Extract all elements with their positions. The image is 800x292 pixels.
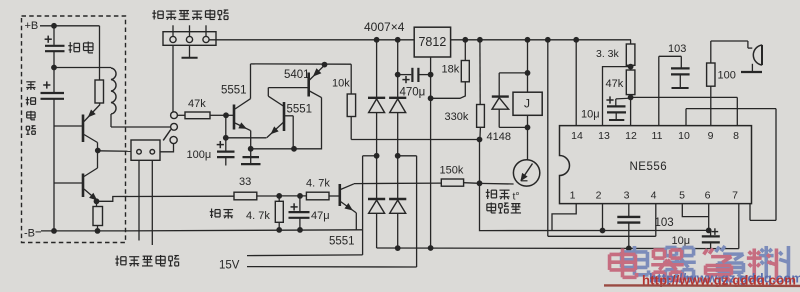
- svg-text:14: 14: [571, 130, 583, 142]
- svg-text:-B: -B: [24, 228, 35, 240]
- svg-text:10μ: 10μ: [672, 235, 691, 247]
- svg-text:5551: 5551: [329, 236, 355, 248]
- svg-text:5551: 5551: [221, 85, 247, 97]
- svg-text:10k: 10k: [332, 78, 350, 90]
- svg-text:4148: 4148: [487, 131, 511, 143]
- svg-text:470μ: 470μ: [400, 86, 426, 98]
- svg-text:t°: t°: [513, 191, 520, 203]
- svg-text:4. 7k: 4. 7k: [306, 177, 330, 189]
- svg-text:NE556: NE556: [630, 161, 668, 173]
- svg-text:47k: 47k: [606, 78, 624, 90]
- svg-text:103: 103: [668, 43, 686, 55]
- svg-text:8: 8: [733, 130, 739, 142]
- svg-text:33: 33: [239, 176, 251, 188]
- svg-text:100μ: 100μ: [187, 149, 212, 161]
- svg-text:330k: 330k: [445, 111, 469, 123]
- svg-text:5401: 5401: [284, 69, 310, 81]
- svg-text:3: 3: [624, 190, 630, 202]
- svg-text:3. 3k: 3. 3k: [596, 48, 620, 60]
- svg-text:9: 9: [708, 130, 714, 142]
- svg-text:4007×4: 4007×4: [364, 20, 405, 34]
- svg-text:5: 5: [679, 190, 685, 202]
- svg-text:5551: 5551: [287, 104, 313, 116]
- svg-text:11: 11: [652, 130, 663, 142]
- svg-text:47k: 47k: [188, 98, 206, 110]
- svg-text:103: 103: [655, 217, 674, 229]
- svg-text:12: 12: [625, 130, 637, 142]
- svg-text:6: 6: [705, 190, 711, 202]
- svg-text:150k: 150k: [440, 165, 464, 177]
- svg-text:47μ: 47μ: [311, 210, 330, 222]
- svg-text:2: 2: [596, 190, 602, 202]
- svg-text:+B: +B: [25, 20, 39, 32]
- svg-text:10μ: 10μ: [581, 109, 600, 121]
- svg-text:4. 7k: 4. 7k: [246, 210, 270, 222]
- svg-text:1: 1: [570, 190, 576, 202]
- svg-text:100: 100: [718, 70, 736, 82]
- svg-text:10: 10: [678, 130, 690, 142]
- svg-text:4: 4: [651, 190, 657, 202]
- svg-text:13: 13: [598, 130, 610, 142]
- svg-text:7: 7: [732, 190, 738, 202]
- svg-text:15V: 15V: [219, 259, 240, 271]
- svg-text:18k: 18k: [442, 64, 460, 76]
- svg-text:7812: 7812: [418, 35, 446, 49]
- svg-text:J: J: [524, 97, 530, 111]
